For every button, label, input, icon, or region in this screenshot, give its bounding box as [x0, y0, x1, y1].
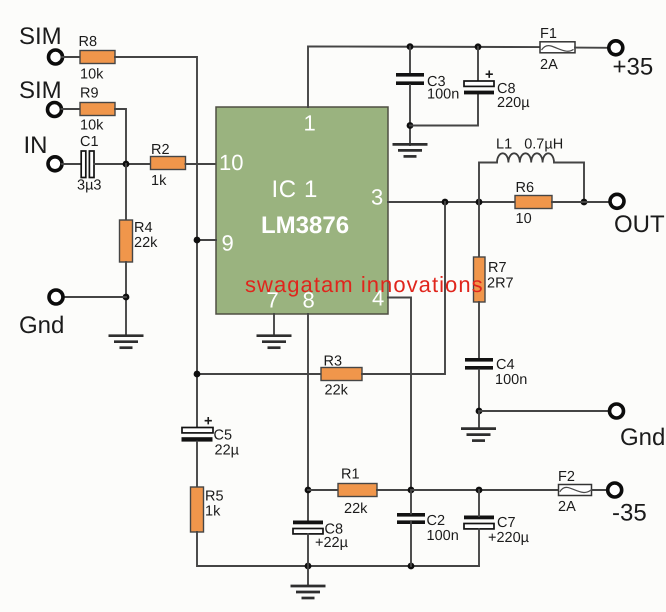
wire pin 1 to top rail	[308, 46, 540, 107]
node Gnd (right terminal)	[610, 404, 666, 451]
junction input node	[123, 161, 130, 168]
ground (below C3)	[393, 144, 428, 156]
svg-text:SIM: SIM	[19, 23, 62, 50]
node Gnd (left terminal)	[19, 290, 64, 339]
svg-text:+35: +35	[613, 54, 654, 81]
capacitor C4 100n	[465, 357, 527, 388]
svg-text:3µ3: 3µ3	[77, 178, 101, 194]
wire R9 down to input node	[115, 109, 126, 164]
junction below C3	[407, 122, 414, 129]
svg-text:C5: C5	[214, 428, 233, 444]
ground (below pin 7)	[257, 336, 292, 348]
wire pin 3 output line	[388, 201, 515, 203]
node feedback left junction	[194, 371, 201, 378]
resistor R8	[79, 34, 116, 83]
svg-text:R6: R6	[516, 180, 535, 196]
wire F2 to -35 terminal	[592, 489, 608, 491]
node pin9 junction	[194, 237, 201, 244]
svg-text:100n: 100n	[427, 528, 459, 544]
capacitor C3 100n	[396, 73, 459, 103]
svg-text:F1: F1	[540, 26, 557, 42]
svg-text:22µ: 22µ	[215, 443, 240, 459]
resistor R9	[80, 86, 115, 134]
svg-text:R2: R2	[151, 142, 170, 158]
svg-text:1k: 1k	[205, 504, 221, 520]
svg-text:Gnd: Gnd	[620, 424, 665, 451]
svg-text:C1: C1	[80, 134, 99, 150]
inductor L1 0.7µH bypass loop	[479, 137, 584, 203]
wire R8 to pin9 column	[115, 57, 197, 428]
capacitor C8 22µ (bottom electrolytic)	[293, 521, 349, 552]
wire R7 to C4	[478, 302, 480, 359]
wire C2 top stub	[410, 490, 412, 514]
wire R1 to -35 node	[377, 489, 411, 491]
svg-text:LM3876: LM3876	[261, 212, 349, 239]
svg-text:22k: 22k	[134, 235, 158, 251]
capacitor C5 22µ (electrolytic)	[182, 414, 240, 459]
svg-text:R8: R8	[79, 34, 98, 50]
node SIM (lower input terminal)	[19, 77, 62, 117]
wire pin 9 to column	[197, 239, 216, 241]
node C2 bottom junction	[408, 563, 415, 570]
svg-text:R1: R1	[341, 467, 360, 483]
wire feedback R3 line	[197, 373, 321, 375]
node bottom gnd junction	[305, 563, 312, 570]
wire C1 to R2	[94, 163, 150, 165]
wire F1 to +35 terminal	[575, 47, 609, 49]
wire R4 to ground	[125, 262, 127, 335]
node C7 top junction	[476, 487, 483, 494]
wire C8 bottom to rail	[307, 534, 309, 566]
svg-text:22k: 22k	[325, 383, 349, 399]
svg-text:swagatam innovations: swagatam innovations	[245, 272, 484, 297]
svg-text:IN: IN	[24, 132, 48, 159]
ground (below C4)	[461, 411, 496, 441]
svg-text:2A: 2A	[558, 499, 576, 515]
svg-text:10k: 10k	[80, 118, 104, 134]
svg-text:2A: 2A	[540, 57, 558, 73]
svg-text:2R7: 2R7	[487, 276, 514, 292]
wire R2 to pin 10	[186, 163, 217, 165]
node zobel junction	[476, 199, 483, 206]
node C8 top junction	[475, 43, 482, 50]
svg-text:220µ: 220µ	[497, 95, 530, 111]
wire Gnd terminal to node	[63, 296, 126, 298]
svg-text:C2: C2	[427, 513, 446, 529]
wire pin 8 column	[307, 314, 309, 521]
resistor R4	[120, 220, 159, 262]
svg-text:L1 0.7µH: L1 0.7µH	[496, 137, 563, 153]
node +35 terminal	[609, 41, 653, 81]
wire C7 top stub	[478, 490, 480, 516]
wire C5 to R5	[196, 442, 198, 487]
ground (bottom rail)	[291, 566, 326, 598]
wire pin8 node to R1	[308, 489, 338, 491]
wire top rail to C3	[409, 47, 411, 74]
node feedback junction	[442, 199, 449, 206]
node C3 top junction	[407, 43, 414, 50]
resistor R5	[191, 487, 224, 532]
svg-text:22k: 22k	[344, 501, 368, 517]
resistor R3	[321, 354, 362, 399]
node L1 right junction	[581, 199, 588, 206]
node OUT terminal	[610, 194, 665, 238]
svg-text:IC 1: IC 1	[272, 176, 318, 203]
node IN (input terminal)	[24, 132, 63, 171]
wire top rail to C8	[477, 47, 479, 81]
junction right gnd node	[476, 408, 483, 415]
svg-text:10: 10	[219, 150, 243, 175]
svg-text:+22µ: +22µ	[315, 535, 349, 551]
resistor R1	[338, 467, 377, 518]
svg-text:C4: C4	[496, 357, 515, 373]
svg-text:R9: R9	[80, 86, 99, 102]
svg-text:3: 3	[371, 185, 383, 210]
wire input node down to R4	[125, 164, 127, 220]
svg-text:C7: C7	[497, 515, 516, 531]
node -35 left junction	[408, 487, 415, 494]
resistor R7	[474, 257, 514, 302]
wire C4 to right gnd node	[478, 370, 480, 411]
svg-text:100n: 100n	[495, 372, 527, 388]
wire R5 to bottom rail	[197, 532, 479, 566]
fuse F2 2A	[558, 469, 592, 515]
svg-text:OUT: OUT	[614, 211, 665, 238]
wire pin 7 to ground	[273, 314, 275, 335]
resistor R2	[151, 142, 186, 189]
svg-text:1k: 1k	[151, 173, 167, 189]
svg-text:R3: R3	[324, 354, 343, 370]
wire output to R7	[478, 202, 480, 257]
wire R6 to OUT	[552, 201, 610, 203]
svg-text:R7: R7	[488, 260, 507, 276]
node -35 terminal	[608, 483, 647, 527]
svg-text:SIM: SIM	[19, 77, 62, 104]
op-amp U1 IC1 LM3876 body	[216, 107, 388, 314]
node pin8/R1 junction	[305, 487, 312, 494]
wire pin 4 to -35 column	[388, 298, 411, 491]
wire SIM2 to R9	[62, 108, 82, 110]
svg-text:R4: R4	[134, 220, 153, 236]
wire C3 to ground node	[409, 85, 411, 145]
resistor R6	[515, 180, 552, 227]
svg-text:R5: R5	[205, 489, 224, 505]
wire R3 up to output node	[362, 202, 445, 374]
svg-text:9: 9	[222, 231, 234, 256]
svg-text:10k: 10k	[80, 67, 104, 83]
svg-text:10: 10	[516, 211, 532, 227]
svg-text:-35: -35	[612, 500, 647, 527]
wire C8 bottom to C3 node	[410, 95, 478, 126]
wire SIM1 to R8	[62, 56, 81, 58]
junction left gnd node	[123, 294, 130, 301]
svg-text:Gnd: Gnd	[19, 312, 64, 339]
svg-text:1: 1	[304, 111, 316, 136]
capacitor C7 220µ (electrolytic)	[464, 515, 530, 546]
node SIM (upper input terminal)	[19, 23, 63, 64]
svg-text:100n: 100n	[427, 87, 459, 103]
svg-text:+220µ: +220µ	[488, 530, 530, 546]
wire C7 bottom to rail	[478, 529, 480, 566]
fuse F1 2A	[540, 26, 575, 73]
wire IN to C1	[62, 163, 82, 165]
ground (below R4)	[109, 336, 144, 348]
capacitor C2 100n	[397, 513, 459, 544]
wire -35 rail	[411, 489, 559, 491]
svg-text:F2: F2	[558, 469, 575, 485]
wire C2 bottom to rail	[410, 522, 412, 566]
wire node to Gnd terminal	[479, 410, 609, 412]
capacitor C8 220µ (top electrolytic)	[464, 67, 530, 111]
capacitor C1 3µ3	[77, 134, 101, 194]
